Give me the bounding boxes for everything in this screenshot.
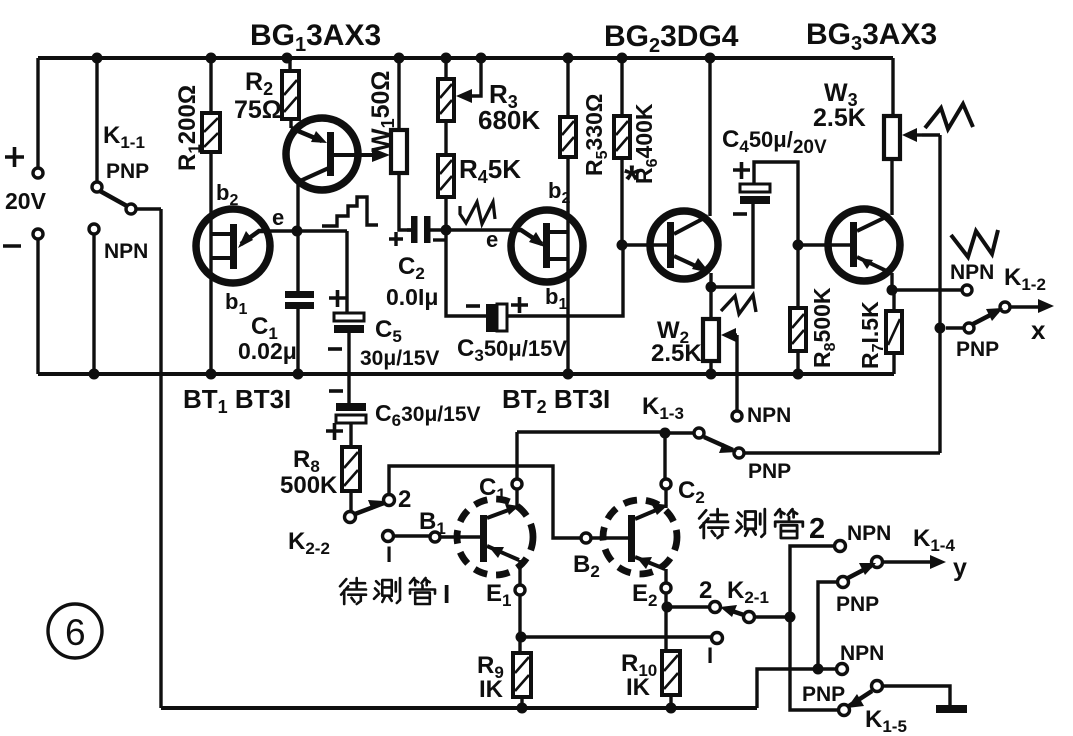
node junction R10 bottom line xyxy=(666,703,677,714)
terminal B2 xyxy=(581,533,591,543)
svg-text:E1: E1 xyxy=(486,580,511,610)
svg-text:NPN: NPN xyxy=(847,522,891,545)
label C1 terminal xyxy=(479,474,506,504)
terminal 1 of K2-2 xyxy=(383,531,394,542)
resistor R9 xyxy=(513,653,531,708)
svg-text:75Ω: 75Ω xyxy=(234,96,282,124)
waveform triangle at W3 wiper xyxy=(925,104,973,129)
node junction R9 bottom line xyxy=(517,703,528,714)
svg-text:W150Ω: W150Ω xyxy=(367,71,398,152)
svg-text:NPN: NPN xyxy=(104,240,148,263)
svg-text:*: * xyxy=(624,158,640,202)
node junction C1 ground rail xyxy=(293,369,304,380)
svg-text:K1-5: K1-5 xyxy=(865,706,907,736)
node junction K1-1 PNP on top rail xyxy=(92,53,103,64)
label R2 xyxy=(245,68,273,99)
svg-text:680K: 680K xyxy=(478,105,540,135)
wire C2 junction to BT2 emitter xyxy=(446,228,511,231)
svg-text:K2-1: K2-1 xyxy=(727,577,769,607)
label NPN of K1-3 xyxy=(747,404,791,427)
wire BG2 emitter to C4 negative xyxy=(711,204,753,287)
node junction R6 top rail xyxy=(617,53,628,64)
label BT1 BT31 xyxy=(183,384,291,417)
switch K1-3 xyxy=(517,428,940,458)
svg-text:B1: B1 xyxy=(419,508,446,538)
label + of C4 xyxy=(733,162,750,179)
svg-text:b1: b1 xyxy=(225,289,247,318)
svg-text:NPN: NPN xyxy=(950,261,994,284)
svg-text:R5330Ω: R5330Ω xyxy=(581,94,611,176)
svg-text:K1-4: K1-4 xyxy=(913,525,955,555)
svg-text:e: e xyxy=(272,205,284,230)
svg-text:K2-2: K2-2 xyxy=(288,528,330,558)
node junction C2 R4 emitter xyxy=(441,225,452,236)
capacitor C3 xyxy=(446,234,623,332)
svg-text:C2: C2 xyxy=(678,477,705,507)
svg-text:2: 2 xyxy=(398,486,411,513)
label K1-1 xyxy=(103,122,145,152)
transistor BG2 xyxy=(627,58,718,319)
svg-text:NPN: NPN xyxy=(747,404,791,427)
svg-text:C350μ/15V: C350μ/15V xyxy=(457,335,567,365)
svg-text:R7I.5K: R7I.5K xyxy=(857,301,887,369)
wire K1-1 common down left side xyxy=(159,209,162,708)
wire E2 down to R10 xyxy=(664,593,667,651)
resistor R3 adjustable xyxy=(438,58,481,155)
label - of C3 xyxy=(466,304,480,308)
wire W3 wiper down to K1-2 PNP and K1-3 PNP xyxy=(938,135,941,453)
label R8 500K rotated xyxy=(809,287,839,368)
label + of C6 xyxy=(326,423,343,440)
svg-text:I: I xyxy=(707,643,713,668)
label 2 of K2-1 xyxy=(699,577,712,604)
svg-text:K1-3: K1-3 xyxy=(642,393,684,423)
node junction BG3 base C4 R8 xyxy=(793,240,804,251)
switch K2-1 xyxy=(672,602,786,623)
label test transistor 2 xyxy=(699,509,803,538)
waveform staircase at BG1 output xyxy=(322,197,378,226)
svg-text:C450μ/20V: C450μ/20V xyxy=(722,126,827,158)
svg-text:x: x xyxy=(1031,315,1046,345)
svg-text:E2: E2 xyxy=(632,580,657,610)
label R1 200ohm xyxy=(174,85,204,171)
label + sign xyxy=(5,147,24,167)
label + of C5 xyxy=(329,290,346,307)
label e of BT1 xyxy=(272,205,284,230)
node junction BG2 emitter xyxy=(706,282,717,293)
label asterisk of R6 xyxy=(624,158,640,202)
resistor R8 feedback xyxy=(790,245,806,374)
label 20V xyxy=(5,188,47,214)
wire middle ground rail xyxy=(38,372,894,376)
terminal - 20V xyxy=(33,229,43,239)
label K1-4 xyxy=(913,525,955,555)
label K2-2 xyxy=(288,528,330,558)
label 30u/15V of C5 xyxy=(360,347,439,370)
svg-text:R2: R2 xyxy=(245,68,273,99)
transistor BG3 xyxy=(802,159,900,289)
wire E1 junction to terminal 1 of K2-1 xyxy=(521,635,711,638)
label 2 of K2-2 xyxy=(398,486,411,513)
wire positive terminal lead xyxy=(36,58,39,168)
label y output xyxy=(953,554,967,582)
label C3 50u/15V xyxy=(457,335,567,365)
wire B1 to base bar xyxy=(440,535,480,538)
capacitor C4 xyxy=(740,162,798,245)
label - of C6 xyxy=(329,389,343,393)
label R3 xyxy=(489,79,518,112)
label K2-1 xyxy=(727,577,769,607)
transistor under test 2 dashed xyxy=(603,489,677,583)
wire K1-4 PNP riser xyxy=(818,582,837,669)
svg-text:PNP: PNP xyxy=(106,160,149,183)
label b2 of BT2 xyxy=(548,178,570,207)
terminal E1 xyxy=(515,585,525,595)
svg-text:C630μ/15V: C630μ/15V xyxy=(375,400,481,430)
label E1 xyxy=(486,580,511,610)
svg-text:C2: C2 xyxy=(398,253,425,283)
terminal + 20V xyxy=(33,168,43,178)
switch K1-4 xyxy=(838,555,947,588)
svg-text:y: y xyxy=(953,554,967,582)
label BT2 BT31 xyxy=(502,384,610,417)
transistor BT1 unijunction xyxy=(196,209,270,283)
label 2.5K of W2 xyxy=(651,340,702,367)
node junction R5 top rail xyxy=(563,53,574,64)
svg-text:NPN: NPN xyxy=(840,642,884,665)
label x output xyxy=(1031,315,1046,345)
wire K1-3 common down to C2 terminal xyxy=(663,433,666,479)
label PNP of K1-1 xyxy=(106,160,149,183)
label PNP of K1-3 xyxy=(748,460,791,483)
label W2 xyxy=(657,317,689,347)
label R6 400K with asterisk xyxy=(631,103,661,184)
wire E1 down to R9 xyxy=(518,595,521,653)
wire K2-2 to B2 of test transistor 2 xyxy=(389,466,581,538)
label R5 330ohm xyxy=(581,94,611,176)
label - of C4 xyxy=(733,212,747,216)
svg-text:b1: b1 xyxy=(545,284,567,313)
switch K1-1 xyxy=(89,58,161,374)
svg-text:BG13AX3: BG13AX3 xyxy=(250,19,381,56)
label BG1 3AX3 xyxy=(250,19,381,56)
wire NPN contact to common column xyxy=(790,546,838,710)
wire bottom line up to NPN row xyxy=(757,669,836,708)
label R4 5K xyxy=(459,154,521,187)
capacitor C2 xyxy=(407,216,442,243)
svg-text:BT2 BT3I: BT2 BT3I xyxy=(502,384,610,417)
resistor R6 xyxy=(614,58,630,245)
label NPN of K1-4 xyxy=(847,522,891,545)
label NPN of K1-2 xyxy=(950,261,994,284)
label C4 50u/20V xyxy=(722,126,827,158)
terminal C2 of test socket 2 xyxy=(661,479,671,489)
label C6 30u/15V xyxy=(375,400,481,430)
contact NPN of K1-4 xyxy=(835,541,846,552)
label PNP of K1-4 xyxy=(836,593,879,616)
svg-text:BG33AX3: BG33AX3 xyxy=(806,18,937,55)
resistor R10 xyxy=(662,651,680,708)
resistor R8 bias xyxy=(342,447,360,511)
potentiometer W3 xyxy=(884,58,940,159)
svg-text:PNP: PNP xyxy=(748,460,791,483)
svg-text:2.5K: 2.5K xyxy=(651,340,702,367)
capacitor C6 xyxy=(336,403,366,447)
label - of C5 xyxy=(328,347,342,351)
label K1-5 xyxy=(865,706,907,736)
label B1 xyxy=(419,508,446,538)
capacitor C5 xyxy=(334,231,364,403)
label - sign xyxy=(3,244,21,248)
node junction BT2 b1 ground rail xyxy=(563,369,574,380)
svg-text:BT1 BT3I: BT1 BT3I xyxy=(183,384,291,417)
svg-text:B2: B2 xyxy=(573,551,600,581)
wire terminal 1 to B1 xyxy=(393,534,430,537)
svg-text:K1-2: K1-2 xyxy=(1004,264,1046,294)
potentiometer W2 xyxy=(703,319,737,411)
label 1 of K2-2 xyxy=(386,542,392,567)
svg-text:0.02μ: 0.02μ xyxy=(238,338,297,364)
label 500K of R8 xyxy=(280,472,338,499)
contact NPN of K1-3 from W2 wiper xyxy=(732,411,742,421)
resistor R7 xyxy=(886,290,902,374)
label + of C3 xyxy=(511,297,528,313)
transistor BG1 xyxy=(286,118,390,231)
potentiometer W1 xyxy=(391,58,411,230)
svg-text:BG23DG4: BG23DG4 xyxy=(604,20,739,57)
wire top supply rail xyxy=(38,56,893,60)
resistor R4 xyxy=(438,155,454,230)
node junction R2 top rail xyxy=(282,53,293,64)
svg-text:6: 6 xyxy=(65,612,86,653)
label K1-3 xyxy=(642,393,684,423)
terminal C1 of test socket 1 xyxy=(512,479,522,489)
wire bottom return line xyxy=(161,706,757,710)
label K1-2 xyxy=(1004,264,1046,294)
wire BG3 emitter to K1-2 NPN xyxy=(892,288,962,291)
node junction BG2 base C3 R6 xyxy=(617,240,628,251)
capacitor C1 xyxy=(285,231,314,374)
label + of C2 xyxy=(389,232,403,246)
label BG3 3AX3 xyxy=(806,18,937,55)
svg-text:e: e xyxy=(486,227,498,252)
label - of C2 xyxy=(433,238,446,241)
label C2 xyxy=(398,253,425,283)
svg-text:b2: b2 xyxy=(216,180,238,209)
label test transistor 1 xyxy=(340,578,435,604)
svg-text:I: I xyxy=(443,579,450,609)
label b2 of BT1 xyxy=(216,180,238,209)
label b1 of BT1 xyxy=(225,289,247,318)
terminal B1 xyxy=(430,532,440,542)
wire BT1 emitter node line xyxy=(270,229,347,232)
switch K1-2 xyxy=(946,285,1054,333)
label PNP of K1-5 xyxy=(802,683,845,706)
node junction R8 ground rail xyxy=(793,369,804,380)
label 1 of K2-1 xyxy=(707,643,713,668)
label e of BT2 xyxy=(486,227,498,252)
label 2.5K of W3 xyxy=(813,104,866,132)
svg-text:K1-1: K1-1 xyxy=(103,122,145,152)
node junction R1 top rail xyxy=(206,53,217,64)
label b1 of BT2 xyxy=(545,284,567,313)
label C1 xyxy=(251,313,278,343)
label R7 1.5K rotated xyxy=(857,301,887,369)
node junction K1-2 PNP on wiper line xyxy=(935,323,946,334)
node junction W1 top rail xyxy=(394,53,405,64)
svg-text:2.5K: 2.5K xyxy=(813,104,866,132)
label 75 ohm xyxy=(234,96,282,124)
node junction W2 ground rail xyxy=(706,369,717,380)
label 680K xyxy=(478,105,540,135)
label R10 1K xyxy=(621,650,657,701)
svg-text:0.0Iμ: 0.0Iμ xyxy=(386,284,438,310)
svg-text:IK: IK xyxy=(626,674,651,701)
resistor R1 xyxy=(202,58,220,374)
label W1 50ohm xyxy=(367,71,398,152)
figure number 6 badge xyxy=(48,604,102,658)
label B2 xyxy=(573,551,600,581)
label R9 1K xyxy=(477,652,504,703)
label W3 xyxy=(824,79,858,110)
label C5 xyxy=(375,316,402,346)
svg-text:500K: 500K xyxy=(280,472,338,499)
label 0.01u xyxy=(386,284,438,310)
label 0.02u xyxy=(238,338,297,364)
svg-text:I: I xyxy=(386,542,392,567)
label R8 xyxy=(293,446,320,476)
contact NPN lower row xyxy=(837,664,848,675)
svg-text:2: 2 xyxy=(809,513,825,545)
switch K2-2 xyxy=(345,495,395,523)
transistor BT2 unijunction xyxy=(511,210,583,282)
waveform triangle at K1-2 NPN xyxy=(951,230,998,257)
resistor R2 xyxy=(282,58,299,128)
node junction NPN on ground rail xyxy=(89,369,100,380)
node junction E1 K2-1 line xyxy=(516,632,527,643)
node junction R3 top rail xyxy=(441,53,452,64)
wire C1 riser of test transistor 1 xyxy=(515,432,518,479)
node junction BG1 collector / BT1 emitter xyxy=(292,226,303,237)
svg-text:2: 2 xyxy=(699,577,712,604)
terminal E2 xyxy=(661,583,671,593)
node junction R3 wiper top rail xyxy=(476,53,487,64)
terminal 1 of K2-1 xyxy=(712,633,723,644)
svg-text:PNP: PNP xyxy=(802,683,845,706)
svg-text:IK: IK xyxy=(479,676,504,703)
svg-text:PNP: PNP xyxy=(836,593,879,616)
switch K1-5 xyxy=(839,681,951,716)
wire BT2 base column b2 to b1 to ground xyxy=(566,157,569,374)
label PNP of K1-2 xyxy=(956,338,999,361)
resistor R5 xyxy=(560,58,576,157)
label E2 xyxy=(632,580,657,610)
node junction K2-1 wire on common column xyxy=(785,612,796,623)
svg-text:R45K: R45K xyxy=(459,154,521,187)
label NPN lower xyxy=(840,642,884,665)
svg-text:PNP: PNP xyxy=(956,338,999,361)
label C2 terminal xyxy=(678,477,705,507)
node junction BG2 collector top rail xyxy=(705,53,716,64)
wire negative terminal lead xyxy=(36,239,39,374)
label BG2 3DG4 xyxy=(604,20,739,57)
label NPN of K1-1 xyxy=(104,240,148,263)
svg-text:C5: C5 xyxy=(375,316,402,346)
svg-text:30μ/15V: 30μ/15V xyxy=(360,347,439,370)
svg-text:R8500K: R8500K xyxy=(809,287,839,368)
ground bar xyxy=(936,705,967,713)
node junction BT1 b1 ground rail xyxy=(206,369,217,380)
node junction K1-4 PNP column xyxy=(813,664,824,675)
wire B2 to base bar xyxy=(591,536,628,539)
transistor under test 1 dashed xyxy=(457,489,533,585)
node junction BG3 emitter R7 xyxy=(887,285,898,296)
svg-text:R1200Ω: R1200Ω xyxy=(174,85,204,171)
waveform sawtooth at BT2 emitter xyxy=(460,202,495,224)
waveform sawtooth at W2 xyxy=(721,295,756,314)
node junction E2 K2-1 xyxy=(662,602,673,613)
node junction K1-3 common xyxy=(660,428,671,439)
svg-text:20V: 20V xyxy=(5,188,47,214)
